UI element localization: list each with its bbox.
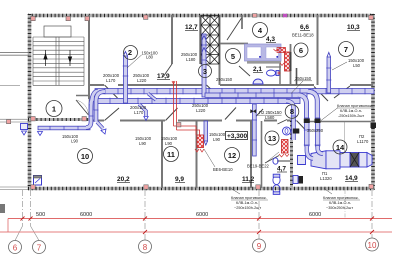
svg-text:6000: 6000 — [80, 212, 92, 218]
svg-text:8: 8 — [143, 243, 148, 252]
wall rooms12/13 — [250, 121, 252, 188]
svg-text:1: 1 — [52, 105, 56, 114]
svg-text:6,6: 6,6 — [300, 24, 309, 31]
room4 entry wall — [241, 15, 243, 29]
svg-text:10,3: 10,3 — [347, 24, 360, 31]
svg-text:17,9: 17,9 — [157, 73, 170, 80]
svg-text:L90: L90 — [71, 139, 79, 144]
dimension line 1 — [8, 218, 392, 220]
svg-text:L90: L90 — [139, 141, 147, 146]
svg-text:4,7: 4,7 — [277, 166, 286, 173]
wall room2/12.7 — [171, 15, 173, 64]
svg-text:L180: L180 — [186, 57, 196, 62]
svg-text:250x150: 250x150 — [295, 76, 312, 81]
bowtie damper room13 duct — [251, 110, 257, 114]
svg-text:КЛВ-1м-О-н-: КЛВ-1м-О-н- — [329, 201, 352, 205]
svg-text:250x150: 250x150 — [216, 77, 233, 82]
red marks near wc upper — [278, 72, 281, 75]
branch duct room10 from trunk B 45deg — [139, 104, 148, 120]
svg-text:~250x150h-2шт: ~250x150h-2шт — [234, 206, 261, 210]
svg-text:L1320: L1320 — [320, 176, 332, 181]
red riser box room5/6 — [285, 52, 291, 71]
svg-text:~350x250h-2шт: ~350x250h-2шт — [326, 206, 353, 210]
door room5 — [239, 66, 250, 76]
exterior wall left — [28, 14, 32, 190]
svg-text:6000: 6000 — [196, 212, 208, 218]
svg-text:3: 3 — [203, 67, 207, 76]
wc fan circle — [283, 127, 291, 135]
svg-text:13: 13 — [268, 134, 276, 143]
svg-text:L170: L170 — [134, 110, 144, 115]
svg-text:7: 7 — [37, 244, 42, 253]
svg-text:ВЕ11-ВЕ18: ВЕ11-ВЕ18 — [292, 33, 314, 38]
svg-text:L220: L220 — [196, 108, 206, 113]
trunk B corridor — [97, 98, 300, 104]
svg-text:Клапан противопож.: Клапан противопож. — [231, 196, 267, 200]
diffuser at left elbow end room10 — [97, 122, 106, 134]
svg-text:L170: L170 — [106, 78, 116, 83]
damper at right wall — [371, 123, 377, 129]
svg-text:L90: L90 — [213, 137, 221, 142]
svg-text:10: 10 — [368, 241, 377, 250]
wall rooms11/12 — [196, 121, 198, 188]
leader BE19-BE22 — [266, 152, 279, 163]
svg-text:L220: L220 — [137, 78, 147, 83]
door room 12.7 — [163, 64, 172, 77]
exterior wall top — [28, 14, 374, 18]
svg-text:12,7: 12,7 — [185, 24, 198, 31]
vent mark top wall — [283, 14, 287, 17]
wall y43 room4/5 — [220, 43, 248, 45]
AHU unit room14 — [298, 151, 373, 169]
svg-text:6: 6 — [299, 46, 303, 55]
vertical duct room11/12 — [204, 121, 208, 145]
wall x290 — [290, 44, 292, 85]
wall right of shaft — [219, 15, 221, 85]
entry stoop left — [0, 52, 29, 54]
svg-text:20,2: 20,2 — [117, 176, 130, 183]
svg-text:14: 14 — [336, 143, 345, 152]
trunk A corridor — [95, 88, 374, 94]
wc damper black — [293, 129, 300, 134]
corridor door leaf 5 — [225, 108, 236, 120]
corridor door leaf 3 top — [105, 85, 118, 98]
vertical duct room7 — [326, 53, 331, 94]
vertical duct room2 — [123, 52, 129, 104]
svg-text:L580: L580 — [265, 115, 275, 120]
stair treads — [33, 37, 84, 85]
wc door leaf — [265, 156, 279, 164]
svg-text:L50: L50 — [353, 63, 361, 68]
svg-text:12: 12 — [228, 151, 236, 160]
svg-text:6: 6 — [13, 244, 18, 253]
corridor door leaf 4 — [207, 85, 220, 97]
stair arrow down — [69, 50, 72, 66]
svg-text:ВЕ6-ВЕ10: ВЕ6-ВЕ10 — [213, 167, 233, 172]
wall room13/wc — [261, 121, 263, 188]
shaft left wall — [199, 15, 201, 64]
shaft x-bracing — [201, 16, 219, 65]
leader BE6-BE10 — [204, 149, 215, 167]
exterior wall bottom — [28, 187, 374, 191]
svg-text:9: 9 — [257, 242, 262, 251]
ref line x345 — [344, 190, 346, 219]
svg-text:5: 5 — [231, 52, 235, 61]
intake stub left — [21, 124, 28, 130]
svg-text:Клапан противопож.: Клапан противопож. — [323, 196, 359, 200]
wall x280 — [279, 45, 281, 85]
corridor bottom wall — [90, 120, 104, 122]
wall rooms10/11 — [161, 121, 163, 188]
svg-text:14,9: 14,9 — [345, 175, 358, 182]
corridor door leaf 1 — [105, 108, 120, 121]
red riser box wc — [282, 140, 289, 154]
svg-text:L90: L90 — [165, 141, 173, 146]
elbow from room10 duct up to trunks — [86, 104, 91, 128]
toilet partition y67 — [266, 66, 281, 68]
svg-text:2,1: 2,1 — [253, 66, 262, 73]
room1 bottom wall — [28, 118, 90, 121]
leader lines fire damper note — [321, 108, 338, 121]
corridor door leaf 2 — [166, 108, 178, 121]
wc toilets lower — [273, 158, 280, 195]
room10 top duct — [38, 126, 90, 130]
wall x296 piece — [296, 68, 298, 85]
vertical duct shaft room3 — [201, 34, 207, 97]
red ticks — [21, 217, 375, 235]
svg-text:350x250: 350x250 — [307, 128, 324, 133]
room1 top wall segment — [76, 95, 89, 97]
wc partition — [277, 160, 291, 162]
grid line verticals — [15, 190, 372, 241]
left dim edge tick — [7, 219, 9, 233]
svg-text:ВЕ19-ВЕ22: ВЕ19-ВЕ22 — [247, 164, 270, 169]
grid bubbles — [9, 238, 379, 254]
duct drop pair room14 — [304, 118, 321, 146]
svg-text:7: 7 — [344, 45, 348, 54]
svg-text:L1170: L1170 — [357, 139, 369, 144]
svg-text:+3,300: +3,300 — [227, 133, 247, 140]
vertical ref line room14 — [344, 122, 346, 152]
svg-text:8: 8 — [290, 107, 294, 116]
svg-text:КЛВ-1м-О-н-: КЛВ-1м-О-н- — [236, 201, 259, 205]
svg-text:L80: L80 — [146, 55, 154, 60]
room14 door leaf — [297, 121, 308, 133]
sheet edge mark — [0, 204, 5, 213]
svg-text:4,3: 4,3 — [266, 36, 275, 43]
svg-text:КЛВ-1м-О-н-: КЛВ-1м-О-н- — [340, 109, 363, 113]
svg-text:Клапан противопож.: Клапан противопож. — [337, 104, 373, 108]
fire dampers corridor black — [315, 119, 321, 124]
dimension texts — [36, 212, 321, 218]
wall wc/room14 — [290, 121, 293, 188]
svg-text:11,2: 11,2 — [242, 176, 255, 183]
pink columns — [7, 14, 374, 190]
leader circle2 — [127, 55, 142, 68]
red riser box room12 — [197, 135, 204, 148]
wc exhaust duct elbow — [286, 101, 297, 140]
elbows right end corridor — [298, 91, 317, 118]
svg-text:500: 500 — [36, 212, 45, 218]
blue cabinet room4 — [245, 44, 282, 61]
diffuser room10 — [38, 132, 43, 136]
washbasin room5 — [253, 79, 263, 84]
svg-text:11: 11 — [167, 150, 175, 159]
room1 door — [76, 100, 89, 115]
staircase right wall — [88, 15, 90, 99]
wc toilet upper — [267, 70, 280, 76]
stair arrow up — [44, 50, 47, 66]
red riser pair corridor — [172, 81, 200, 135]
vertical duct room13 — [252, 104, 257, 156]
room number circles — [46, 23, 354, 164]
svg-text:2: 2 — [128, 48, 132, 57]
unit near wall bottom room14 — [293, 176, 298, 184]
dimension line 2 — [0, 231, 392, 233]
exterior grade lines bottom-left — [0, 186, 28, 188]
bottom notes — [231, 196, 359, 210]
fire damper note right — [337, 104, 373, 118]
trunk C corridor — [205, 92, 307, 97]
svg-text:10: 10 — [81, 152, 89, 161]
small duct labels — [62, 51, 312, 140]
corridor door leaf 6 — [253, 109, 264, 120]
staircase landing — [44, 26, 71, 37]
diagonal connector trunks — [148, 94, 156, 101]
svg-text:9,9: 9,9 — [175, 176, 184, 183]
door room4 — [227, 18, 242, 40]
exterior wall right — [371, 14, 375, 190]
corridor top wall — [90, 84, 104, 86]
door leaf room7 b — [334, 86, 350, 98]
wall room6/7 — [317, 15, 319, 85]
svg-text:-250x150h-2шт: -250x150h-2шт — [338, 114, 364, 118]
svg-text:6000: 6000 — [309, 212, 321, 218]
+3.300 box — [226, 132, 248, 140]
small blue panel room10 wall — [34, 176, 42, 186]
door leaf room7 a — [314, 87, 328, 102]
AHU connect elbows — [307, 146, 323, 159]
